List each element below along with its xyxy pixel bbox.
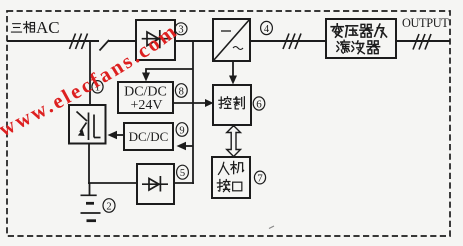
svg-text:9: 9 <box>179 125 184 136</box>
red watermark www.elecfans.com <box>3 8 208 137</box>
DC bus vertical wire <box>192 41 194 184</box>
slash marks <box>413 34 431 50</box>
DC/DC box 9 <box>124 123 173 150</box>
wire: rectifier to inverter <box>175 40 213 42</box>
wire: bus to DCDC24 with arrow <box>146 69 193 74</box>
switch blade <box>100 40 110 51</box>
battery symbol (energy storage) <box>81 183 101 221</box>
label 三相AC <box>11 18 59 37</box>
label circle 9 <box>176 123 188 137</box>
label circle 4 <box>261 21 273 34</box>
diode box 5 <box>137 164 174 204</box>
label circle 5 <box>177 165 189 179</box>
svg-text:8: 8 <box>179 86 184 97</box>
stray mark <box>269 226 274 229</box>
label circle 3 <box>175 23 187 36</box>
rectifier box 3 <box>136 20 175 60</box>
label circle 6 <box>253 97 265 111</box>
svg-text:OUTPUT: OUTPUT <box>402 16 449 30</box>
svg-text:4: 4 <box>264 24 270 35</box>
DC/DC +24V box 8 <box>118 82 173 113</box>
label circle 8 <box>175 84 187 98</box>
inverter box 4 <box>213 19 250 61</box>
svg-text:5: 5 <box>180 168 185 179</box>
wire: chopper down to ground node <box>88 144 90 185</box>
svg-text:+24V: +24V <box>130 98 162 113</box>
svg-text:6: 6 <box>256 99 262 111</box>
HMI box 7 <box>212 157 250 198</box>
wire: bus down-left into diode box 5 <box>174 182 194 184</box>
chopper box 1 (IGBT) <box>69 105 106 144</box>
control box 6 <box>213 85 251 125</box>
wire: DCDC24 to control with arrow <box>173 102 206 104</box>
wire: bus to DCDC9 with arrow <box>184 145 193 147</box>
wire: switch to rectifier <box>109 40 137 42</box>
IGBT symbol <box>77 112 101 141</box>
transformer-filter box <box>326 19 396 58</box>
svg-text:7: 7 <box>257 173 263 185</box>
wire: inverter to transformer <box>250 40 326 42</box>
label circle 2 <box>103 199 115 213</box>
wire: transformer to output <box>396 40 450 42</box>
three-phase slash marks <box>70 34 88 50</box>
svg-text:AC: AC <box>36 18 60 37</box>
node junction at x=90 <box>89 41 91 105</box>
label circle 7 <box>254 171 265 184</box>
diode symbol in box 3 <box>142 30 170 48</box>
svg-text:DC/DC: DC/DC <box>129 129 169 144</box>
slash marks <box>283 34 301 50</box>
wire: three-phase input line <box>7 40 99 42</box>
wire: DCDC9 to chopper with arrow <box>115 134 124 136</box>
node 1 circle <box>92 81 103 94</box>
double arrow control to HMI <box>227 126 241 157</box>
wire: inverter down to control with arrow <box>232 61 234 77</box>
svg-text:2: 2 <box>106 202 111 213</box>
diode symbol in box 5 <box>142 176 168 192</box>
wire: ground node to diode box 5 <box>88 182 137 184</box>
